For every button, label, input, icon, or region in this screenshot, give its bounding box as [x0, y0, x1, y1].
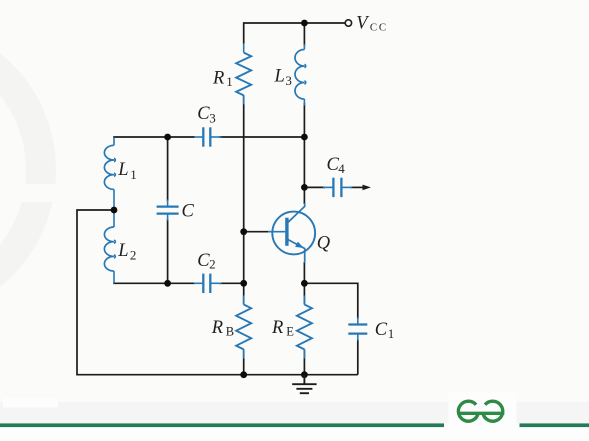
emitter arrow head [295, 242, 304, 248]
transistor Q envelope circle [272, 212, 315, 255]
resistor RE [297, 296, 312, 359]
wire emitter node to C1 top [304, 283, 357, 319]
wire emitter column lower [303, 262, 305, 283]
inductor L1 [104, 137, 115, 207]
wire RB top lead [243, 283, 245, 304]
wire RB bottom lead [243, 349, 245, 374]
green rule left [0, 423, 444, 427]
svg-text:E: E [286, 325, 294, 339]
wire R1 bottom to base to C2 node [243, 95, 245, 283]
output arrow head [363, 185, 371, 191]
svg-text:C: C [375, 320, 388, 340]
wire C4 to output [351, 186, 364, 188]
footer band [0, 402, 589, 423]
wire C3 to collector node [219, 136, 304, 138]
wire C2 to base node [219, 282, 244, 284]
node C2-base [240, 280, 247, 287]
watermark white box on band [3, 398, 58, 408]
svg-text:1: 1 [388, 326, 395, 341]
node L1-L2 tap [111, 207, 118, 214]
svg-text:L: L [274, 66, 285, 86]
wire L3 bottom / collector column [303, 103, 305, 204]
inductor L3 [295, 44, 306, 106]
wire RE top lead [303, 283, 305, 304]
wire C1 bottom to ground rail [357, 339, 359, 375]
svg-text:1: 1 [130, 167, 137, 182]
svg-text:L: L [117, 241, 128, 261]
svg-text:3: 3 [209, 110, 216, 125]
node C bottom [164, 280, 171, 287]
footer white below line [0, 427, 589, 441]
transistor Q base lead [268, 231, 285, 233]
green rule right [520, 423, 589, 427]
node RE ground [301, 371, 308, 378]
wire L3 top lead [303, 22, 305, 46]
svg-text:L: L [117, 160, 128, 180]
node C3-collector [301, 134, 308, 141]
wire top rail [244, 22, 346, 24]
ground [292, 375, 316, 394]
svg-text:Q: Q [317, 234, 331, 254]
svg-text:C: C [182, 201, 195, 221]
node emitter [301, 280, 308, 287]
capacitor C1 [348, 318, 367, 341]
node tank top / C [164, 134, 171, 141]
svg-text:3: 3 [285, 73, 292, 88]
node RB ground [240, 371, 247, 378]
transistor Q emitter lead [287, 239, 305, 263]
svg-text:CC: CC [370, 22, 386, 34]
wire tank top to C3 [113, 136, 195, 138]
resistor R1 [236, 43, 251, 104]
svg-text:2: 2 [130, 248, 137, 263]
svg-text:2: 2 [209, 257, 216, 272]
svg-text:R: R [212, 69, 224, 89]
wire C top lead [167, 137, 169, 201]
inductor L2 [104, 213, 115, 283]
svg-text:R: R [271, 318, 283, 338]
svg-text:4: 4 [338, 161, 345, 176]
capacitor C3 [194, 127, 221, 146]
node C4 tap [301, 184, 308, 191]
wire C bottom lead [167, 219, 169, 283]
svg-text:1: 1 [226, 74, 233, 89]
wire R1 top lead [243, 22, 245, 43]
wire left return [77, 210, 358, 375]
node top rail / L3 [301, 20, 308, 27]
capacitor C4 [323, 178, 352, 197]
wire collector to C4 [304, 186, 325, 188]
logo white box [449, 393, 517, 432]
wire tank bottom to C2 [113, 282, 195, 284]
wire RE bottom lead [303, 349, 305, 374]
capacitor C2 [194, 274, 221, 293]
node base [240, 228, 247, 235]
transistor Q [268, 203, 315, 263]
resistor RB [236, 296, 251, 359]
svg-text:R: R [211, 318, 223, 338]
svg-text:B: B [226, 325, 234, 339]
wire base [244, 231, 270, 233]
capacitor C [157, 200, 179, 221]
transistor Q base bar [285, 218, 288, 246]
VCC terminal [345, 20, 351, 26]
logo glyphs [457, 401, 504, 421]
watermark ring (faint logo) [0, 35, 57, 305]
transistor Q collector lead [287, 203, 305, 223]
